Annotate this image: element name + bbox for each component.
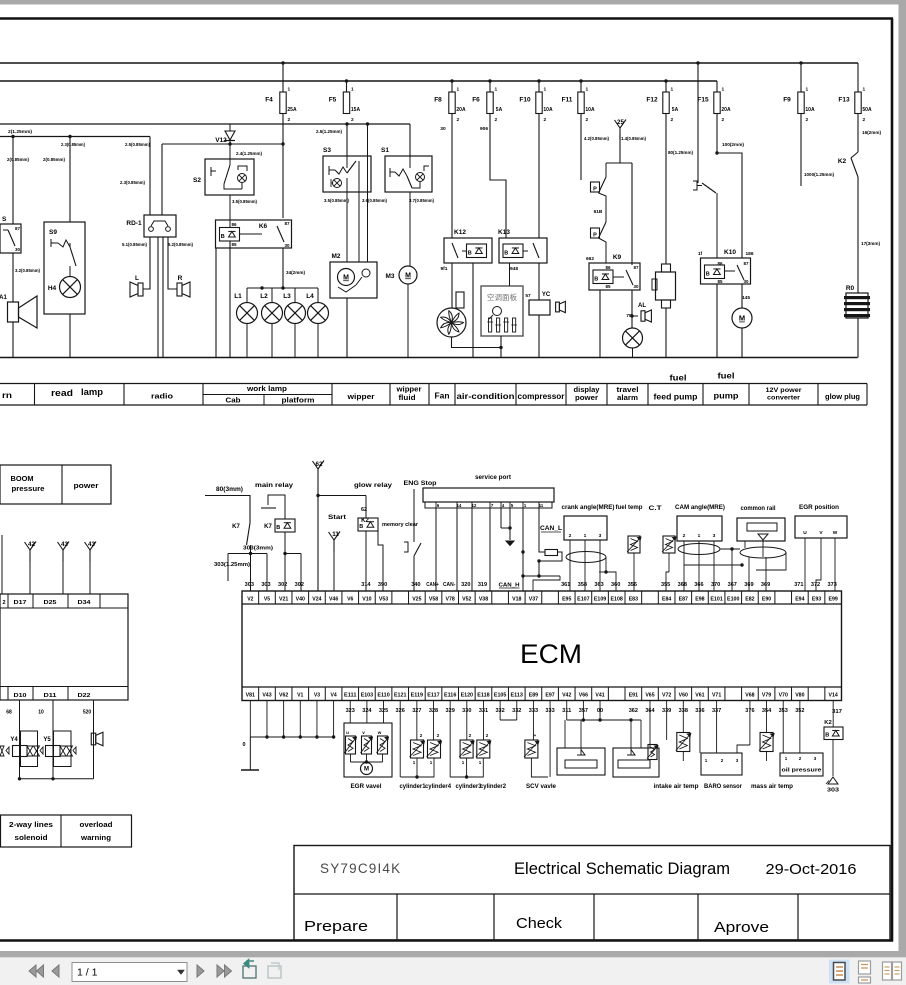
- svg-text:86: 86: [231, 222, 237, 227]
- svg-text:V4: V4: [330, 693, 336, 699]
- node bus1-F9: [799, 61, 802, 64]
- svg-text:2: 2: [683, 533, 686, 539]
- svg-text:3.5(0.85mm): 3.5(0.85mm): [232, 199, 257, 205]
- injector cylinder1: [416, 701, 418, 741]
- wire 80 feed: [205, 496, 250, 524]
- svg-text:319: 319: [478, 582, 487, 588]
- svg-text:K13: K13: [498, 229, 510, 236]
- wire main relay top: [268, 495, 285, 519]
- svg-text:空调面板: 空调面板: [487, 292, 517, 302]
- viewer right gray margin: [899, 0, 906, 951]
- svg-text:K7: K7: [264, 524, 272, 530]
- wire V42V66V41 collector: [566, 701, 568, 721]
- wire lamp manifold: [247, 287, 318, 289]
- svg-text:fluid: fluid: [399, 395, 416, 402]
- node 43 antenna b: [89, 550, 91, 562]
- svg-text:L4: L4: [306, 293, 314, 300]
- wire E91 drop: [640, 720, 642, 748]
- svg-text:15A: 15A: [351, 107, 361, 113]
- svg-text:R0: R0: [846, 285, 855, 292]
- svg-text:2-way lines: 2-way lines: [9, 820, 53, 829]
- wire F12 feed: [665, 81, 667, 92]
- svg-text:1: 1: [495, 87, 498, 93]
- svg-text:fuel: fuel: [670, 373, 687, 383]
- svg-text:E119: E119: [411, 693, 423, 699]
- svg-text:3.2(0.85mm): 3.2(0.85mm): [15, 268, 40, 274]
- svg-text:30: 30: [15, 247, 21, 252]
- svg-text:V61: V61: [695, 693, 704, 699]
- svg-text:wipper: wipper: [395, 387, 421, 394]
- wire M2 feed: [367, 124, 369, 262]
- wire K10 coil gnd: [716, 284, 718, 358]
- svg-text:warning: warning: [80, 833, 111, 842]
- svg-text:F13: F13: [838, 97, 850, 104]
- svg-text:SY79C9I4K: SY79C9I4K: [320, 861, 401, 876]
- svg-text:L2: L2: [260, 293, 268, 300]
- sheet frame bottom border: [0, 939, 893, 942]
- wire rail jog: [756, 552, 786, 570]
- svg-text:E108: E108: [610, 597, 622, 603]
- svg-text:2: 2: [2, 600, 5, 606]
- svg-text:Start: Start: [328, 515, 346, 521]
- svg-text:V37: V37: [529, 597, 538, 603]
- wire CT drop: [668, 553, 670, 572]
- wire solenoid manifold: [20, 778, 94, 780]
- svg-text:cylinder4: cylinder4: [425, 783, 452, 790]
- viewer top gray strip: [0, 0, 906, 5]
- svg-text:2.4(1.25mm): 2.4(1.25mm): [236, 151, 262, 157]
- fan blower M1: [437, 308, 466, 337]
- wire M3 gnd: [407, 284, 409, 358]
- function table frame: [0, 383, 867, 385]
- wire sp pin7 drop: [489, 508, 491, 591]
- wire fan to ac panel: [452, 337, 502, 348]
- svg-text:2(1.25mm): 2(1.25mm): [8, 129, 32, 135]
- svg-text:20A: 20A: [456, 107, 466, 113]
- wire E82 drop: [748, 557, 750, 591]
- svg-text:M2: M2: [331, 253, 340, 260]
- svg-text:2.3(0.85mm): 2.3(0.85mm): [61, 142, 85, 148]
- svg-text:ENG Stop: ENG Stop: [404, 480, 437, 487]
- wire V12-S2: [229, 144, 231, 159]
- svg-text:V43: V43: [262, 693, 271, 699]
- svg-text:V40: V40: [296, 597, 305, 603]
- svg-text:E111: E111: [344, 693, 356, 699]
- svg-text:57: 57: [525, 293, 531, 299]
- svg-text:V66: V66: [579, 693, 588, 699]
- wire F15 feed: [716, 81, 718, 92]
- svg-text:E94: E94: [795, 597, 804, 603]
- svg-text:compressor: compressor: [518, 391, 566, 401]
- svg-text:V70: V70: [779, 693, 788, 699]
- wire L2 gnd: [271, 324, 273, 358]
- svg-text:u: u: [346, 730, 349, 735]
- svg-text:Fan: Fan: [435, 392, 450, 401]
- node 303 arrow: [828, 777, 838, 784]
- node 43 antenna a: [62, 550, 64, 562]
- wire 43b drop: [89, 562, 91, 594]
- svg-text:BOOM: BOOM: [11, 474, 34, 483]
- svg-text:E120: E120: [461, 693, 473, 699]
- svg-text:F6: F6: [472, 97, 480, 104]
- wire K13 switch to YC: [538, 263, 540, 300]
- svg-text:V60: V60: [679, 693, 688, 699]
- node bus2-F5: [345, 79, 348, 82]
- fuse F8 20A: [449, 92, 455, 114]
- wire RD-1 to L speaker: [143, 237, 150, 289]
- svg-text:E90: E90: [762, 597, 771, 603]
- svg-text:87: 87: [633, 265, 639, 270]
- wire sp pin6 drop: [435, 508, 437, 591]
- wire H4 to ground bus: [69, 314, 71, 358]
- toolbar last page button: [217, 965, 224, 977]
- wire K12 coil gnd: [472, 263, 474, 358]
- wire V40 drop: [300, 554, 302, 592]
- solenoid Y4 partial left: [0, 746, 4, 756]
- svg-text:303: 303: [245, 582, 254, 588]
- svg-text:1 / 1: 1 / 1: [77, 967, 98, 979]
- svg-text:C.T: C.T: [649, 505, 662, 512]
- switch E fuel: [693, 181, 697, 190]
- wire common rail pins: [744, 541, 746, 548]
- svg-text:3: 3: [713, 533, 716, 539]
- oil pressure sensor box: [782, 701, 784, 754]
- wire K9 coil gnd: [599, 290, 601, 358]
- svg-text:L3: L3: [283, 293, 291, 300]
- svg-text:V18: V18: [512, 597, 521, 603]
- node read-line S tap: [11, 135, 14, 138]
- node line3-S3: [345, 122, 348, 125]
- sheet frame top border: [0, 17, 893, 20]
- ECM bottom pin row: [258, 687, 260, 701]
- wire alarm gnd: [632, 348, 634, 358]
- node bus1-F4: [281, 61, 284, 64]
- wire S3 out2: [358, 161, 360, 262]
- injector cylinder3: [466, 701, 468, 741]
- wire RD-1 left feed: [149, 137, 151, 216]
- svg-text:H4: H4: [48, 285, 57, 292]
- svg-text:80(3mm): 80(3mm): [216, 487, 243, 493]
- pressure switch P2: [591, 228, 600, 238]
- svg-text:Aprove: Aprove: [714, 920, 769, 936]
- node 62 antenna: [317, 469, 319, 481]
- wire F4 down: [282, 114, 284, 144]
- svg-text:1: 1: [722, 87, 725, 93]
- svg-text:2.5(1.25mm): 2.5(1.25mm): [316, 129, 342, 135]
- svg-text:D11: D11: [44, 693, 57, 699]
- twisted pair ellipse crank: [566, 552, 606, 563]
- svg-text:29-Oct-2016: 29-Oct-2016: [766, 861, 857, 878]
- svg-text:3.5(0.85mm): 3.5(0.85mm): [324, 198, 349, 204]
- wire F10 down to K13: [538, 114, 540, 238]
- wire S1 feed: [409, 124, 411, 156]
- svg-text:E89: E89: [529, 693, 538, 699]
- wire read-lamp line: [0, 136, 150, 138]
- wire K6 87 feed: [282, 144, 284, 218]
- svg-text:rn: rn: [2, 390, 12, 400]
- wire RD-1 gnd a: [157, 237, 159, 358]
- wire K2 to 303: [832, 740, 834, 777]
- svg-text:372: 372: [811, 582, 820, 588]
- wire CAN_H link: [523, 552, 560, 576]
- overload warning speaker: [91, 733, 96, 745]
- wire F9 down: [800, 114, 802, 186]
- wire S3 out1: [346, 192, 348, 262]
- toolbar background: [0, 958, 906, 985]
- svg-text:V41: V41: [595, 693, 604, 699]
- svg-text:356: 356: [628, 582, 637, 588]
- ECM top pin row: [258, 591, 260, 604]
- node bus2-F10: [537, 79, 540, 82]
- node line3-M2: [366, 122, 369, 125]
- svg-text:1: 1: [584, 533, 587, 539]
- node bus2-F8: [450, 79, 453, 82]
- svg-text:5A: 5A: [496, 107, 503, 113]
- svg-text:50A: 50A: [862, 107, 872, 113]
- box 2-way lines solenoid / overload warning: [1, 815, 132, 847]
- svg-text:20A: 20A: [721, 107, 731, 113]
- svg-text:371: 371: [794, 582, 803, 588]
- svg-text:906: 906: [480, 126, 488, 132]
- wire ground collector left: [249, 701, 251, 738]
- svg-text:43: 43: [61, 541, 68, 548]
- node bus2-F11: [579, 79, 582, 82]
- fuse F15 20A: [714, 92, 720, 114]
- svg-text:100(2mm): 100(2mm): [722, 142, 744, 148]
- svg-text:12: 12: [472, 503, 477, 508]
- svg-text:P: P: [593, 187, 597, 193]
- svg-text:42: 42: [28, 541, 35, 548]
- svg-text:87: 87: [15, 226, 21, 231]
- svg-text:E82: E82: [745, 597, 754, 603]
- svg-text:V24: V24: [312, 597, 321, 603]
- svg-text:1: 1: [457, 87, 460, 93]
- svg-text:E87: E87: [679, 597, 688, 603]
- svg-text:303: 303: [827, 788, 839, 794]
- svg-text:1: 1: [863, 87, 866, 93]
- svg-text:common rail: common rail: [741, 505, 776, 512]
- svg-text:10A: 10A: [585, 107, 595, 113]
- svg-text:2(0.85mm): 2(0.85mm): [43, 157, 65, 163]
- svg-text:S1: S1: [381, 147, 389, 154]
- node fuel pump split: [715, 151, 718, 154]
- toolbar next view icon: [268, 966, 281, 978]
- svg-text:ECM: ECM: [520, 639, 582, 669]
- svg-text:Prepare: Prepare: [304, 919, 368, 935]
- wire F11 down: [580, 114, 582, 180]
- svg-text:85: 85: [717, 279, 723, 284]
- wire F6 feed: [489, 81, 491, 92]
- wire F15 down: [716, 114, 718, 153]
- svg-text:E101: E101: [710, 597, 722, 603]
- wire cylinder32 common: [449, 701, 451, 778]
- svg-text:D10: D10: [14, 693, 27, 699]
- wire F5 feed: [346, 81, 348, 92]
- wire K12 to fan: [451, 263, 453, 308]
- wire cam link: [720, 548, 740, 550]
- svg-text:303: 303: [261, 582, 270, 588]
- fuse F11 10A: [578, 92, 584, 114]
- svg-text:E117: E117: [427, 693, 439, 699]
- svg-text:30: 30: [440, 126, 446, 132]
- svg-text:1: 1: [544, 87, 547, 93]
- fuse F13 50A: [855, 92, 861, 114]
- switch S9: [51, 242, 58, 244]
- svg-text:E118: E118: [477, 693, 489, 699]
- svg-text:w: w: [377, 730, 382, 735]
- svg-text:V79: V79: [762, 693, 771, 699]
- toolbar first page button: [29, 965, 36, 977]
- wire V37 drop: [533, 576, 560, 591]
- wire crank pins: [569, 540, 571, 591]
- svg-text:V65: V65: [645, 693, 654, 699]
- svg-text:fuel: fuel: [718, 371, 735, 381]
- svg-text:1.4(0.85mm): 1.4(0.85mm): [621, 136, 646, 142]
- wire sp pin11 CAN drop: [538, 508, 540, 538]
- svg-text:370: 370: [711, 582, 720, 588]
- svg-text:V68: V68: [745, 693, 754, 699]
- wire fuel pump gnd: [741, 328, 743, 358]
- wire Start drop: [333, 552, 335, 591]
- wire 25 down: [619, 134, 621, 163]
- svg-text:V53: V53: [379, 597, 388, 603]
- svg-text:2: 2: [495, 117, 498, 123]
- node bus2-F12: [664, 79, 667, 82]
- svg-text:S3: S3: [323, 147, 331, 154]
- svg-text:RD-1: RD-1: [126, 220, 142, 227]
- svg-text:Y4: Y4: [10, 737, 18, 743]
- wire EGR U drop: [804, 538, 806, 591]
- svg-text:P: P: [593, 233, 597, 239]
- toolbar two page view icon: [883, 962, 892, 980]
- node bus2-F6: [488, 79, 491, 82]
- svg-text:B: B: [504, 251, 508, 257]
- ac panel box: [481, 286, 523, 336]
- svg-text:1: 1: [806, 87, 809, 93]
- twisted pair ellipse cam: [678, 544, 720, 555]
- svg-text:2: 2: [544, 117, 547, 123]
- wire distribution line3: [0, 123, 410, 125]
- svg-text:520: 520: [83, 710, 92, 716]
- svg-text:87: 87: [284, 221, 290, 226]
- wire glow relay top: [365, 496, 367, 519]
- svg-text:radio: radio: [151, 392, 173, 401]
- wire L4 gnd: [317, 324, 319, 358]
- svg-text:travel: travel: [617, 387, 639, 394]
- svg-text:9f1: 9f1: [440, 266, 447, 272]
- relay K6: [216, 220, 292, 248]
- svg-text:M3: M3: [385, 273, 394, 280]
- svg-text:L1: L1: [234, 293, 242, 300]
- wire V72 drop: [666, 701, 668, 741]
- node 25 antenna: [619, 128, 621, 140]
- svg-text:E105: E105: [494, 693, 506, 699]
- svg-text:U: U: [803, 530, 807, 536]
- wire ENG stop drop: [413, 489, 415, 542]
- wire YC gnd: [538, 315, 540, 358]
- svg-text:E109: E109: [594, 597, 606, 603]
- SCV valve solenoid: [532, 701, 534, 741]
- svg-text:1f: 1f: [698, 251, 703, 257]
- node read-line S9 tap: [68, 135, 71, 138]
- wire RD-1 to R speaker: [168, 237, 177, 289]
- toolbar page combo box: [72, 963, 187, 982]
- svg-text:M: M: [739, 314, 745, 323]
- svg-text:E98: E98: [695, 597, 704, 603]
- svg-text:2: 2: [671, 117, 674, 123]
- svg-text:145: 145: [742, 295, 750, 301]
- svg-text:85: 85: [231, 242, 237, 247]
- wire main relay out: [284, 532, 286, 554]
- svg-text:E103: E103: [361, 693, 373, 699]
- svg-text:V6: V6: [347, 597, 353, 603]
- svg-text:F15: F15: [697, 97, 709, 104]
- wire cam pins: [683, 541, 685, 591]
- svg-text:S9: S9: [49, 229, 57, 236]
- svg-text:converter: converter: [767, 395, 801, 402]
- svg-text:V80: V80: [795, 693, 804, 699]
- fuse F10 10A: [536, 92, 542, 114]
- svg-text:V58: V58: [429, 597, 438, 603]
- wire ground bus bottom: [0, 357, 858, 359]
- wire sp pin12 drop: [471, 508, 473, 591]
- svg-text:87: 87: [743, 261, 749, 266]
- svg-text:solenoid: solenoid: [15, 833, 48, 842]
- wire S2-K6 coil: [229, 195, 231, 227]
- svg-text:10: 10: [38, 710, 44, 716]
- wire sp ground pins 4 5: [500, 508, 502, 528]
- svg-text:fuel temp: fuel temp: [616, 504, 643, 511]
- svg-text:302: 302: [278, 582, 287, 588]
- box2 resistor: [648, 745, 657, 760]
- svg-text:V72: V72: [662, 693, 671, 699]
- svg-text:V2: V2: [247, 597, 253, 603]
- svg-text:362: 362: [629, 708, 638, 714]
- svg-text:V10: V10: [362, 597, 371, 603]
- svg-text:16(2mm): 16(2mm): [862, 130, 881, 136]
- accel sensor box1: [557, 748, 605, 775]
- svg-text:302: 302: [295, 582, 304, 588]
- svg-text:CAN-: CAN-: [443, 582, 456, 588]
- wire oil pressure third: [815, 748, 823, 753]
- wire L3 gnd: [294, 324, 296, 358]
- CAN terminator resistor: [545, 550, 558, 556]
- svg-text:CAN+: CAN+: [426, 582, 439, 588]
- svg-text:5.1(0.85mm): 5.1(0.85mm): [122, 242, 147, 248]
- svg-text:10A: 10A: [543, 107, 553, 113]
- svg-text:E107: E107: [577, 597, 589, 603]
- wire V65 drop: [649, 701, 651, 749]
- wire E105 E113 jog: [499, 701, 501, 721]
- title block frame: [294, 846, 890, 941]
- svg-text:K9: K9: [613, 254, 622, 261]
- svg-text:L: L: [135, 275, 139, 282]
- svg-text:B: B: [825, 733, 829, 739]
- wire F8 down to K12: [451, 114, 453, 238]
- wire S9 feed: [69, 137, 71, 223]
- toolbar single page view icon active: [829, 960, 850, 984]
- svg-text:2(0.85mm): 2(0.85mm): [7, 157, 29, 163]
- pressure switch P1: [591, 182, 600, 192]
- svg-text:340: 340: [411, 582, 420, 588]
- svg-text:K2: K2: [838, 158, 847, 165]
- node bus1-E switch tap: [696, 61, 699, 64]
- svg-text:E84: E84: [662, 597, 671, 603]
- svg-text:D22: D22: [78, 693, 91, 699]
- svg-text:E97: E97: [545, 693, 554, 699]
- svg-text:W: W: [833, 530, 838, 536]
- wire bus2 +acc: [0, 80, 717, 82]
